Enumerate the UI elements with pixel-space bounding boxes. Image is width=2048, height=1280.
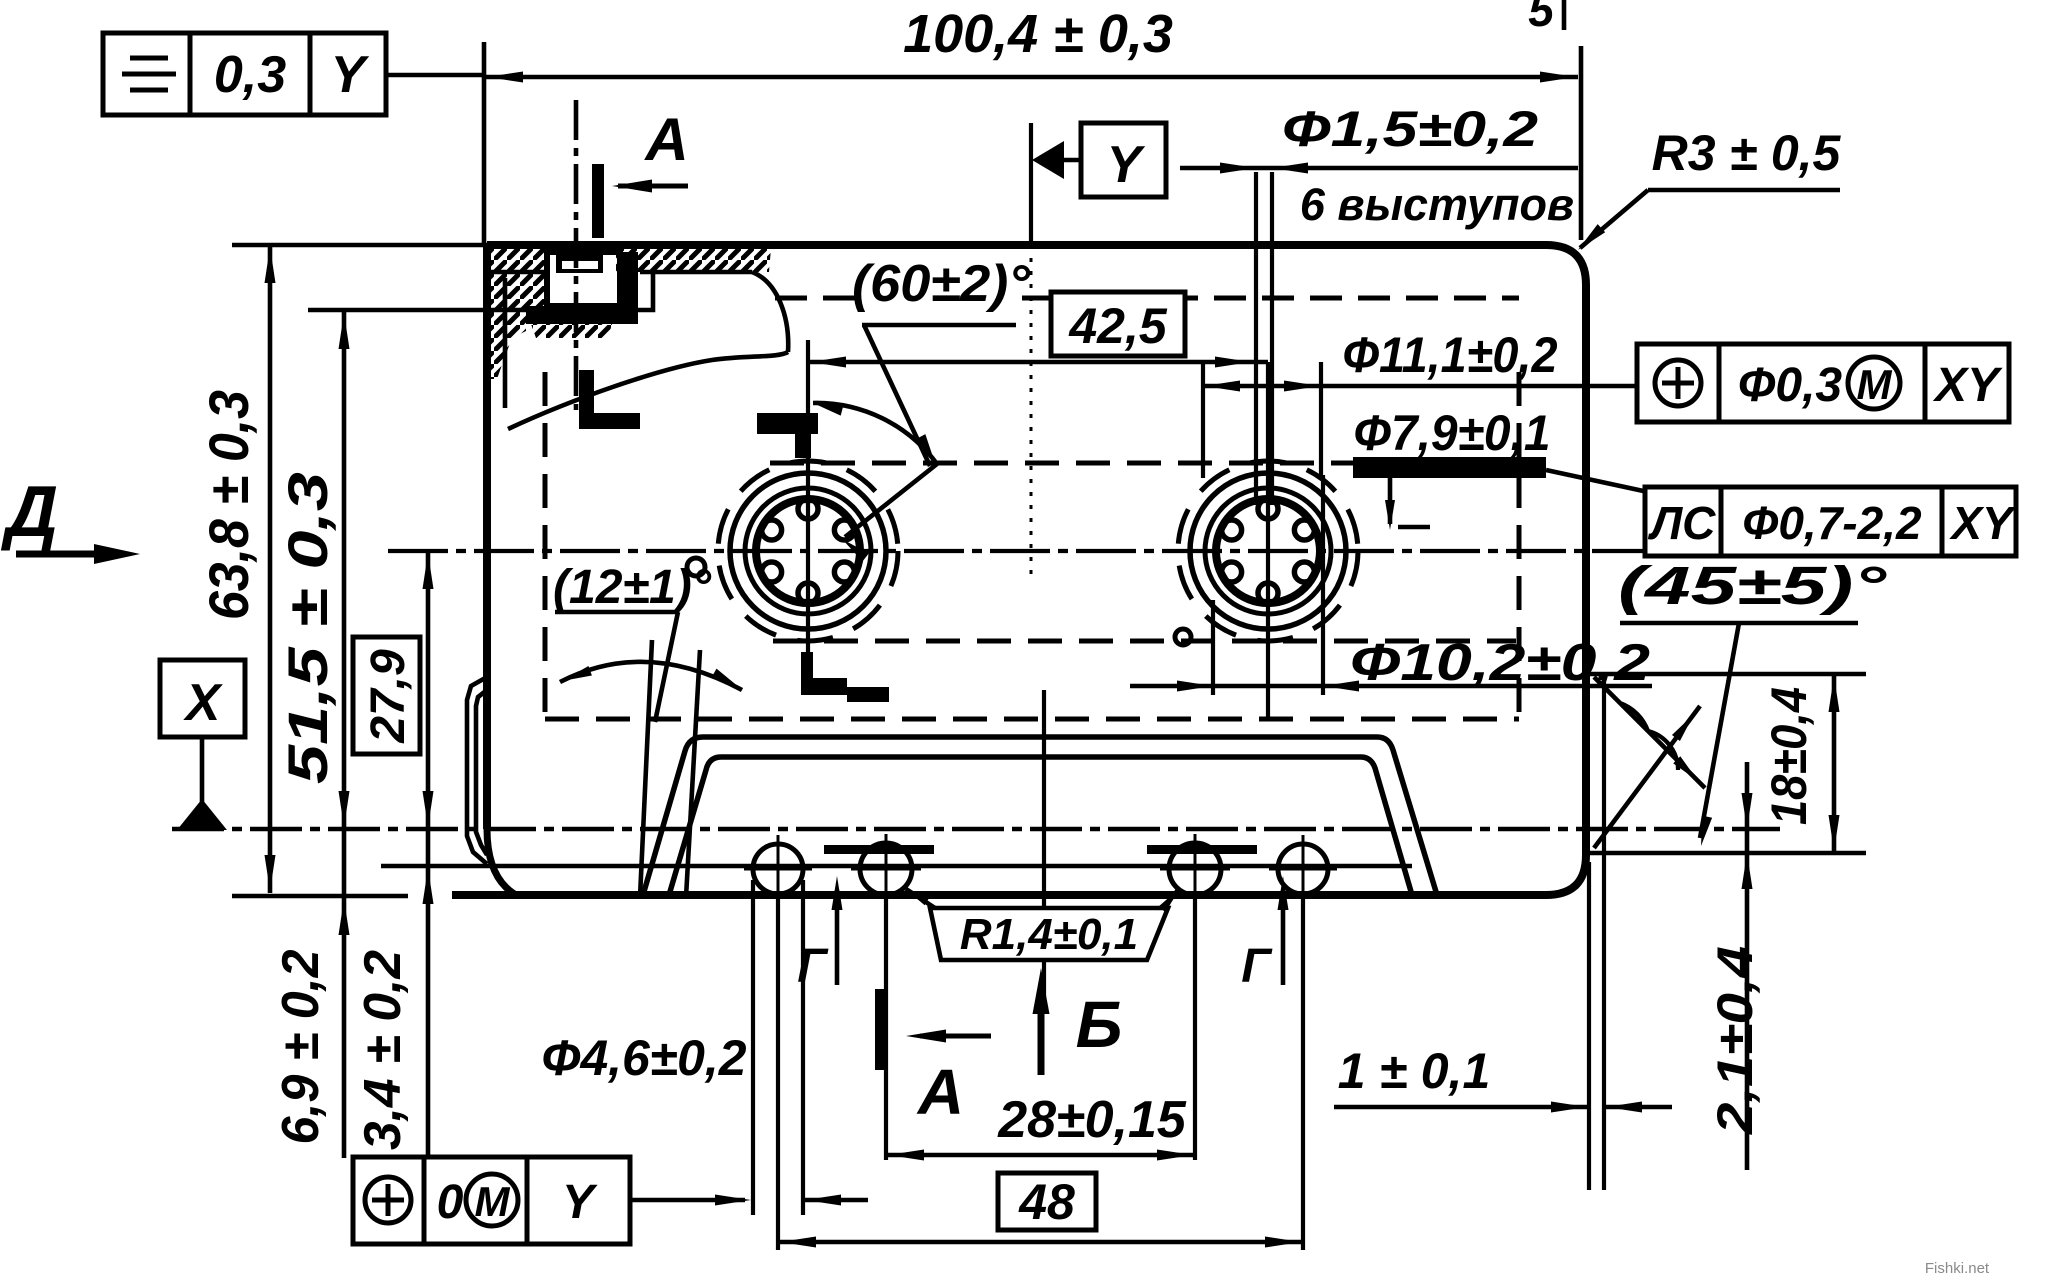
svg-text:Y: Y <box>562 1176 598 1229</box>
svg-text:(45±5)°: (45±5)° <box>1618 556 1887 616</box>
tape path inner contour <box>669 757 1412 895</box>
window detail rectangle <box>547 252 620 306</box>
dim 18 line <box>1832 674 1837 853</box>
R1,4 trapezoid callout <box>930 908 1168 960</box>
dim 28 line <box>886 1153 1195 1158</box>
svg-text:Fishki.net: Fishki.net <box>1925 1260 1990 1277</box>
dim 42,5 line <box>808 360 1268 365</box>
dim F1,5 line <box>1180 166 1578 171</box>
cassette vertical center line bottom <box>1042 690 1046 1008</box>
svg-text:X: X <box>183 674 224 732</box>
leader to LS frame <box>1546 470 1648 492</box>
guide hole c1 <box>753 844 803 894</box>
60deg tilted line <box>864 325 930 466</box>
bottom holes dash-dot line <box>172 827 1780 832</box>
right hub vertical center line <box>1266 362 1270 720</box>
step outline right of window <box>615 273 653 310</box>
svg-text:27,9: 27,9 <box>362 649 415 744</box>
svg-text:XY: XY <box>1932 359 2003 412</box>
svg-text:XY: XY <box>1948 497 2017 549</box>
svg-text:0,3: 0,3 <box>214 46 286 104</box>
12deg leg 2 <box>686 650 700 897</box>
B view marker <box>1038 1005 1045 1075</box>
tape reference line <box>381 864 1412 869</box>
svg-text:6,9 ± 0,2: 6,9 ± 0,2 <box>272 949 330 1144</box>
svg-text:Ф0,3: Ф0,3 <box>1738 359 1843 412</box>
small hole near right hub <box>1175 629 1191 645</box>
capstan c2 flat top bar <box>824 845 934 854</box>
section A bottom marker <box>875 989 888 1070</box>
60deg underline <box>862 323 1016 328</box>
small hole left of left hub <box>687 558 705 576</box>
svg-text:(60±2)°: (60±2)° <box>852 255 1031 313</box>
cassette vertical center line top <box>1029 123 1033 245</box>
F10,2 extension lines <box>1211 600 1215 695</box>
FCF symmetry 0,3 Y top-left <box>103 33 386 115</box>
extension below c3 <box>1193 895 1197 1160</box>
12deg arc <box>560 662 742 690</box>
left side step protrusion <box>467 677 487 864</box>
45deg leg line <box>1700 623 1739 838</box>
R3 underline leader <box>1648 188 1840 193</box>
right hub <box>1216 499 1320 603</box>
G arrow left <box>835 890 840 985</box>
60deg arc <box>813 403 937 464</box>
torn-section break line <box>508 352 788 429</box>
27,9 box rotated <box>353 637 420 754</box>
capstan hole c2 <box>860 843 912 895</box>
ref line y=674 <box>1586 672 1866 677</box>
svg-text:1 ± 0,1: 1 ± 0,1 <box>1338 1043 1491 1099</box>
FCF position 0 M Y bottom <box>353 1157 630 1244</box>
dim 1 line <box>1334 1105 1589 1110</box>
42,5 box <box>1051 292 1185 356</box>
section A top marker <box>592 164 604 238</box>
dashed shell window rectangle <box>543 372 548 719</box>
svg-text:Y: Y <box>331 46 370 104</box>
FCF LS F0,7-2,2 XY <box>1645 487 2016 556</box>
leader from FCF to extension <box>386 73 484 78</box>
45deg cross line A <box>1594 677 1705 788</box>
hatched band right of window <box>616 248 771 272</box>
svg-text:M: M <box>1857 361 1893 408</box>
svg-text:48: 48 <box>1018 1174 1075 1230</box>
12deg leg 1 <box>640 640 652 897</box>
hatched patch under window bar <box>531 324 612 338</box>
svg-text:ЛС: ЛС <box>1648 497 1717 549</box>
F11,1 extension lines <box>1201 362 1205 478</box>
svg-text:Г: Г <box>1241 940 1273 993</box>
F4,6 dim arrows <box>630 1198 745 1203</box>
svg-text:18±0,4: 18±0,4 <box>1761 687 1817 825</box>
extension below c2 <box>884 895 888 1160</box>
band bottom edges <box>489 270 547 275</box>
leader to hub tooth <box>845 464 937 537</box>
bold corner mark above left hub <box>757 413 818 434</box>
F7,9 down arrow <box>1388 478 1393 524</box>
dim 100,4 line <box>484 75 1578 80</box>
51,5 top tick <box>308 308 628 313</box>
inner dashed lines <box>770 461 1512 466</box>
dim F11,1 line to FCF <box>1203 384 1637 389</box>
svg-text:Ф1,5±0,2: Ф1,5±0,2 <box>1282 101 1538 157</box>
window inner tab <box>556 255 603 273</box>
dim F10,2 line <box>1130 684 1652 689</box>
bold mark below left hub <box>801 652 813 682</box>
hatched band left of window <box>489 248 547 379</box>
svg-text:Ф11,1±0,2: Ф11,1±0,2 <box>1343 327 1558 383</box>
window thick bottom bar <box>526 306 638 324</box>
svg-text:5: 5 <box>1528 0 1555 36</box>
svg-text:3,4 ± 0,2: 3,4 ± 0,2 <box>354 950 412 1150</box>
cassette body outline <box>452 245 1586 895</box>
extension below c1 center <box>776 895 780 1250</box>
top edge extension left <box>232 243 487 248</box>
svg-text:Б: Б <box>1076 987 1123 1061</box>
R1,4 left leader <box>906 889 935 908</box>
45deg underline <box>1620 621 1858 626</box>
svg-text:А: А <box>916 1056 964 1128</box>
bold L mark below window <box>579 370 594 429</box>
ref line y=853 <box>1586 851 1866 856</box>
svg-text:Ф0,7-2,2: Ф0,7-2,2 <box>1742 497 1922 549</box>
section A-A cut line top <box>574 100 579 410</box>
extension lines 100,4 <box>482 42 487 245</box>
left hub <box>756 499 860 603</box>
section wall inner line <box>503 278 508 408</box>
bottom tick left <box>232 894 408 899</box>
dim 48 line <box>778 1240 1303 1245</box>
left hub vertical center line <box>806 340 810 652</box>
svg-text:6 выступов: 6 выступов <box>1300 179 1574 230</box>
svg-text:42,5: 42,5 <box>1068 298 1168 354</box>
FCF position F0,3 M XY <box>1637 344 2009 422</box>
svg-text:А: А <box>643 106 688 173</box>
1+-0,1 verticals <box>1587 862 1591 1190</box>
dim 2,1 line <box>1745 762 1750 1170</box>
svg-text:(12±1)°: (12±1)° <box>553 561 712 614</box>
tape path outer contour <box>643 737 1437 895</box>
svg-text:0: 0 <box>437 1176 464 1229</box>
svg-text:51,5 ± 0,3: 51,5 ± 0,3 <box>276 472 339 784</box>
F7,9 heavy bar <box>1353 457 1546 478</box>
dim 27,9 / 3,4 line <box>426 551 431 1158</box>
dashed lip level line <box>775 296 862 301</box>
F1,5 extension lines to hub tooth <box>1254 172 1258 505</box>
svg-text:100,4 ± 0,3: 100,4 ± 0,3 <box>903 4 1173 64</box>
svg-text:R3 ± 0,5: R3 ± 0,5 <box>1652 125 1842 181</box>
window right thick border <box>618 252 638 324</box>
G arrow right <box>1281 890 1286 985</box>
datum X flag <box>160 660 245 737</box>
svg-text:Ф4,6±0,2: Ф4,6±0,2 <box>542 1030 747 1086</box>
hub horizontal center line <box>388 549 1652 553</box>
dim 63,8 line <box>268 245 273 893</box>
svg-text:63,8 ± 0,3: 63,8 ± 0,3 <box>197 390 260 620</box>
capstan c3 flat top bar <box>1147 845 1257 854</box>
extension below c4 <box>1301 895 1305 1250</box>
svg-text:M: M <box>475 1178 511 1225</box>
12deg underline <box>555 610 678 615</box>
datum Y flag <box>1032 141 1064 179</box>
F4,6 extension lines <box>751 880 755 1215</box>
capstan hole c3 <box>1169 843 1221 895</box>
guide hole c4 <box>1278 844 1328 894</box>
svg-text:2,1±0,4: 2,1±0,4 <box>1707 946 1763 1135</box>
R1,4 right leader <box>1163 890 1178 908</box>
svg-text:Д: Д <box>0 472 58 552</box>
svg-text:R1,4±0,1: R1,4±0,1 <box>960 910 1138 959</box>
lip curve <box>752 272 788 352</box>
dim 51,5 / 6,9 line <box>342 311 347 1158</box>
svg-text:Y: Y <box>1107 136 1146 194</box>
45deg cross line B <box>1594 706 1700 848</box>
svg-text:Ф7,9±0,1: Ф7,9±0,1 <box>1354 405 1551 461</box>
svg-text:28±0,15: 28±0,15 <box>997 1091 1187 1149</box>
48 box <box>998 1173 1096 1230</box>
